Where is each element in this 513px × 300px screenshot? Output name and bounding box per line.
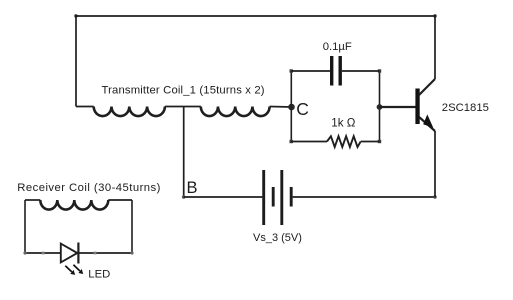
wire receiver loop left vertical <box>24 200 26 253</box>
wire receiver bottom left <box>25 252 60 254</box>
capacitor 0.1uF plates <box>332 56 341 86</box>
wire coil to node C <box>270 106 292 109</box>
wire coil center segment <box>165 106 201 108</box>
node LED cathode lead end <box>94 252 97 255</box>
wire battery to bottom-right corner <box>293 196 435 198</box>
svg-text:Receiver Coil (30-45turns): Receiver Coil (30-45turns) <box>17 182 161 194</box>
wire base lead <box>380 106 416 108</box>
svg-text:2SC1815: 2SC1815 <box>442 102 489 114</box>
battery Vs_3 <box>264 170 292 225</box>
wire center tap vertical <box>183 107 185 198</box>
capacitor 0.1uF leads <box>291 70 379 72</box>
node RC corner top-right <box>378 69 381 72</box>
inductor Receiver Coil winding <box>25 199 40 201</box>
LED D1 cathode bar <box>77 243 79 264</box>
node C junction dot <box>288 104 295 111</box>
wire RC loop right vertical <box>379 71 381 142</box>
wire emitter vertical <box>434 131 436 197</box>
svg-text:B: B <box>187 179 198 197</box>
inductor Transmitter Coil_1 left winding <box>76 106 94 108</box>
LED D1 emission arrow 2 <box>73 265 80 271</box>
transistor Q1 collector lead <box>419 79 435 95</box>
resistor 1k leads <box>291 141 379 143</box>
resistor 1k zigzag <box>327 136 361 147</box>
svg-text:1k Ω: 1k Ω <box>331 117 355 130</box>
node B junction <box>182 195 186 199</box>
wire left vertical <box>75 16 77 107</box>
wire RC loop left vertical <box>290 71 292 142</box>
node RC corner top-left <box>290 69 293 72</box>
wire bottom left to battery <box>184 196 263 198</box>
svg-text:LED: LED <box>88 269 110 281</box>
wire receiver loop right vertical <box>131 200 133 253</box>
svg-text:C: C <box>296 99 309 119</box>
transistor Q1 emitter lead <box>419 117 435 131</box>
inductor Transmitter Coil_1 right winding <box>201 107 270 117</box>
node bottom-right corner <box>433 195 436 198</box>
node receiver bottom-left corner <box>23 251 26 254</box>
transistor Q1 emitter arrow <box>423 114 433 128</box>
svg-text:0.1µF: 0.1µF <box>323 41 352 53</box>
LED D1 triangle <box>61 244 78 263</box>
transistor Q1 2SC1815 base bar <box>415 89 419 125</box>
node top-right corner <box>433 14 436 17</box>
node RC corner bottom-left <box>290 140 293 143</box>
wire top rail <box>76 15 435 17</box>
svg-text:Transmitter Coil_1 (15turns x: Transmitter Coil_1 (15turns x 2) <box>102 84 265 96</box>
node RC corner bottom-right <box>378 140 381 143</box>
wire collector vertical <box>434 16 436 79</box>
svg-text:Vs_3 (5V): Vs_3 (5V) <box>253 232 302 244</box>
node top-left corner <box>74 14 77 17</box>
node base junction <box>377 104 383 110</box>
LED D1 emission arrow 1 <box>65 266 72 272</box>
wire receiver bottom right <box>78 252 132 254</box>
node receiver bottom-right corner <box>130 251 133 254</box>
node LED anode lead end <box>42 252 45 255</box>
